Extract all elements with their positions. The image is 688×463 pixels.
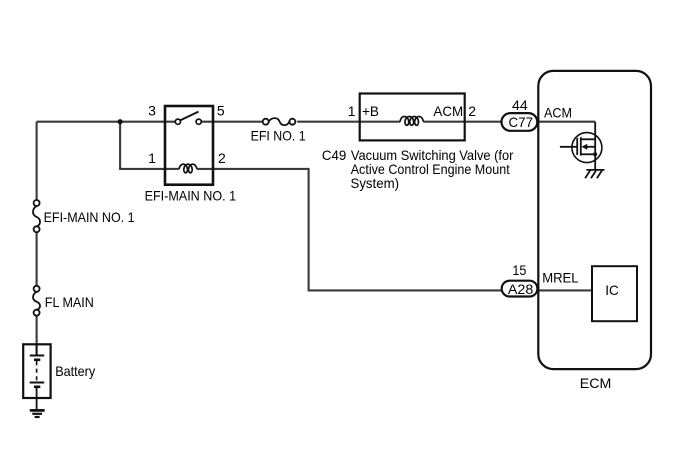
svg-text:C77: C77 <box>509 114 534 130</box>
svg-text:System): System) <box>351 175 400 191</box>
svg-text:MREL: MREL <box>542 269 579 285</box>
svg-text:44: 44 <box>512 97 528 113</box>
svg-text:1: 1 <box>348 103 356 119</box>
svg-text:EFI NO. 1: EFI NO. 1 <box>251 127 306 143</box>
svg-text:A28: A28 <box>508 281 534 297</box>
svg-text:15: 15 <box>512 262 526 278</box>
svg-text:ECM: ECM <box>580 375 612 391</box>
svg-text:FL MAIN: FL MAIN <box>45 294 94 310</box>
svg-text:C49: C49 <box>322 147 347 163</box>
svg-text:2: 2 <box>468 103 476 119</box>
svg-text:EFI-MAIN NO. 1: EFI-MAIN NO. 1 <box>145 188 237 204</box>
svg-text:EFI-MAIN NO. 1: EFI-MAIN NO. 1 <box>44 209 135 225</box>
svg-text:2: 2 <box>218 150 226 166</box>
svg-text:ACM: ACM <box>433 103 463 119</box>
svg-text:+B: +B <box>362 103 379 119</box>
svg-text:5: 5 <box>217 103 225 119</box>
svg-text:IC: IC <box>605 282 619 298</box>
svg-text:1: 1 <box>148 150 156 166</box>
svg-text:Battery: Battery <box>55 363 95 379</box>
svg-text:ACM: ACM <box>544 105 572 121</box>
svg-text:3: 3 <box>148 103 156 119</box>
